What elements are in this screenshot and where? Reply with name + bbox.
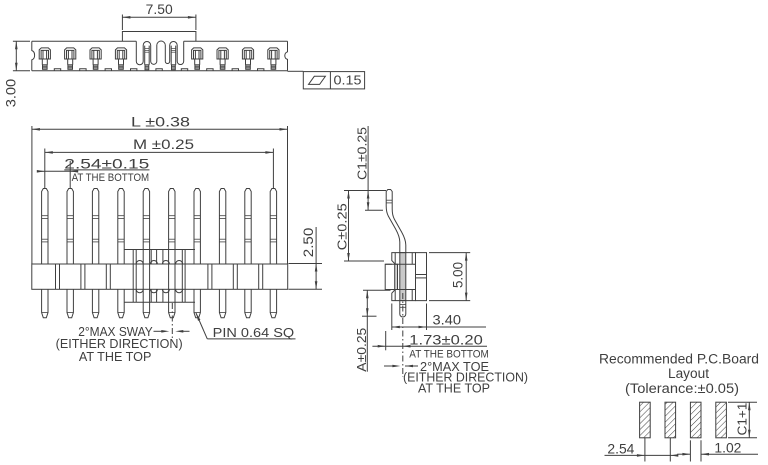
pad 4 bbox=[716, 402, 727, 438]
svg-text:C±0.25: C±0.25 bbox=[336, 203, 350, 250]
dimension A±0.25 bbox=[363, 289, 391, 291]
front view: center section detail above body bbox=[124, 249, 195, 251]
front view: pin 6 upper post bbox=[169, 189, 175, 250]
top view: header body strip bbox=[32, 40, 288, 42]
front view: pin 2 upper post bbox=[67, 189, 73, 265]
svg-text:M ±0.25: M ±0.25 bbox=[133, 137, 194, 152]
svg-text:1.73±0.20: 1.73±0.20 bbox=[409, 332, 483, 347]
front view: cell separation lines in body bbox=[55, 264, 57, 289]
svg-text:2.54: 2.54 bbox=[607, 441, 634, 457]
svg-text:3.00: 3.00 bbox=[4, 79, 19, 108]
svg-text:5.00: 5.00 bbox=[450, 262, 465, 288]
dimension 3.40 bbox=[391, 304, 393, 331]
leader from body to flatness frame bbox=[288, 70, 304, 72]
dimension 2.50 (body thickness) bbox=[289, 263, 323, 265]
svg-text:Layout: Layout bbox=[668, 366, 709, 381]
dimension C1+1 (pad length) bbox=[728, 401, 757, 403]
svg-text:PIN 0.64 SQ: PIN 0.64 SQ bbox=[213, 326, 295, 340]
dimension 1.73±0.20 bbox=[385, 331, 387, 350]
front view: pin 3 upper post bbox=[92, 189, 98, 265]
dimension C1±0.25 bbox=[344, 190, 386, 192]
svg-text:A±0.25: A±0.25 bbox=[355, 328, 369, 372]
front view: center section detail below body bbox=[124, 301, 195, 303]
front view: full-height section walls and pin edges in center zone bbox=[132, 250, 134, 303]
dimension 7.50 (boss width) bbox=[121, 15, 123, 31]
top view: pin 9 (square post, end-on) bbox=[242, 48, 253, 59]
front view: pin 1 solder tail bbox=[42, 289, 48, 318]
side view: body left protrusion bbox=[385, 264, 392, 289]
top view: pin 2 (square post, end-on) bbox=[65, 48, 76, 59]
front view: pin 8 upper post bbox=[219, 189, 225, 265]
top view: pin 4 (square post, end-on) bbox=[115, 48, 126, 59]
dimension C±0.25 bbox=[344, 260, 384, 262]
top view: pin 6 inside scalloped finger bbox=[170, 46, 172, 65]
front view: insulator body bar bbox=[32, 264, 288, 289]
pad 1 bbox=[640, 402, 651, 438]
svg-text:AT THE BOTTOM: AT THE BOTTOM bbox=[409, 348, 489, 360]
side view: body bottom band bbox=[392, 290, 416, 301]
svg-text:1.02: 1.02 bbox=[714, 439, 741, 455]
note: PIN 0.64 SQ with leader bbox=[196, 313, 207, 339]
side view: bent pin upper post bbox=[386, 190, 392, 210]
svg-text:C1±0.25: C1±0.25 bbox=[355, 127, 369, 180]
svg-text:7.50: 7.50 bbox=[146, 2, 173, 17]
note: 2 deg max sway with leader arrows bbox=[171, 303, 173, 338]
side view: pin shaft through body (gray) bbox=[400, 253, 406, 301]
front view: pin 1 upper post bbox=[42, 189, 48, 265]
svg-text:L ±0.38: L ±0.38 bbox=[131, 115, 190, 130]
dimension 5.00 bbox=[429, 252, 470, 254]
svg-text:C1+1: C1+1 bbox=[734, 403, 749, 436]
side view: insulator wall shading bbox=[395, 264, 398, 289]
dimension 2.54 (pad pitch) bbox=[644, 438, 646, 462]
note: 2 deg max toe bbox=[384, 365, 397, 367]
side view: pin bend bbox=[386, 206, 400, 253]
svg-text:2.54±0.15: 2.54±0.15 bbox=[64, 156, 149, 171]
top view: bottom edge tabs bbox=[54, 69, 60, 71]
side view: solder tail below body bbox=[400, 301, 406, 317]
svg-text:2.50: 2.50 bbox=[301, 228, 316, 258]
dimension 2.54±0.15 pitch bbox=[69, 161, 71, 188]
front view: pin 8 solder tail bbox=[219, 289, 225, 318]
front view: pin 10 upper post bbox=[270, 189, 276, 265]
dimension 3.00 (body height, top view) bbox=[13, 40, 30, 42]
top view: pin 7 (square post, end-on) bbox=[192, 48, 203, 59]
dimension M ±0.25 bbox=[44, 149, 46, 189]
pad 2 bbox=[665, 402, 676, 438]
top view: pin 3 (square post, end-on) bbox=[90, 48, 101, 59]
front view: pin 9 solder tail bbox=[245, 289, 251, 318]
front view: pin 6 solder tail bbox=[169, 302, 175, 318]
side view: body top band bbox=[392, 253, 416, 265]
front view: pin 4 solder tail bbox=[118, 289, 124, 318]
svg-text:(EITHER DIRECTION): (EITHER DIRECTION) bbox=[56, 337, 183, 351]
svg-text:(Tolerance:±0.05): (Tolerance:±0.05) bbox=[625, 381, 739, 396]
side view: pin centerline bbox=[402, 293, 404, 377]
front view: pin 5 upper post bbox=[143, 189, 149, 250]
front view: pin 5 solder tail bbox=[143, 302, 149, 318]
front view: pin 9 upper post bbox=[245, 189, 251, 265]
front view: pin 7 upper post bbox=[194, 189, 200, 265]
top view: pin 8 (square post, end-on) bbox=[217, 48, 228, 59]
flatness feature control frame 0.15 bbox=[303, 72, 364, 89]
dimension L ±0.38 (overall length) bbox=[31, 126, 33, 264]
svg-text:Recommended P.C.Board: Recommended P.C.Board bbox=[599, 351, 759, 366]
top view: pin 1 (square post, end-on) bbox=[39, 48, 50, 59]
top view: pin 5 inside scalloped finger bbox=[144, 46, 146, 65]
svg-text:0.15: 0.15 bbox=[334, 73, 362, 88]
front view: pin 7 solder tail bbox=[194, 289, 200, 318]
front view: pin 3 solder tail bbox=[92, 289, 98, 318]
side view: body right block bbox=[416, 253, 427, 301]
pad 3 bbox=[690, 402, 701, 438]
top view: center cutout with scalloped fingers bbox=[136, 41, 183, 65]
front view: pin 10 solder tail bbox=[270, 289, 276, 318]
front view: pin 2 solder tail bbox=[67, 289, 73, 318]
dimension 1.02 (pad width) bbox=[689, 440, 691, 461]
svg-text:AT THE TOP: AT THE TOP bbox=[79, 350, 151, 364]
top view: raised center boss bbox=[122, 32, 195, 42]
front view: pin 4 upper post bbox=[118, 189, 124, 265]
svg-text:AT THE TOP: AT THE TOP bbox=[418, 381, 490, 395]
svg-text:AT THE BOTTOM: AT THE BOTTOM bbox=[72, 172, 150, 184]
svg-text:3.40: 3.40 bbox=[433, 313, 462, 328]
top view: pin 10 (square post, end-on) bbox=[268, 48, 279, 59]
